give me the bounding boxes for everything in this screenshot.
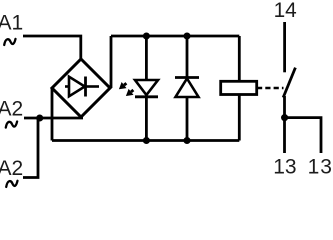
AC symbol under A1 bbox=[4, 39, 15, 45]
AC symbol under upper A2 bbox=[6, 122, 17, 128]
wire contact common lower bbox=[283, 96, 286, 153]
wire bridge left corner down to bottom rail bbox=[51, 88, 54, 141]
svg-text:13: 13 bbox=[308, 155, 333, 178]
wire bridge right corner riser bbox=[110, 36, 113, 88]
bridge internal diode cathode bar bbox=[84, 77, 87, 97]
wire LED branch upper bbox=[145, 36, 148, 80]
wire freewheel diode branch lower bbox=[186, 97, 189, 141]
bridge internal diode anode lead bbox=[65, 85, 69, 88]
wire top rail bbox=[111, 35, 239, 38]
bridge rectifier outline bbox=[52, 59, 110, 117]
junction dot bottom rail diode branch bbox=[183, 137, 190, 144]
AC symbol under lower A2 bbox=[6, 181, 17, 187]
LED cathode bar bbox=[135, 95, 158, 98]
junction dot top rail LED branch bbox=[143, 32, 150, 39]
junction dot top rail diode branch bbox=[183, 32, 190, 39]
wire freewheel diode branch upper bbox=[186, 36, 189, 78]
wire relay coil branch upper bbox=[238, 36, 241, 81]
LED triangle bbox=[135, 80, 158, 95]
terminal label 14 bbox=[274, 0, 297, 22]
junction dot contact node bbox=[281, 114, 288, 121]
svg-text:A2: A2 bbox=[0, 157, 23, 180]
wire A2 upper lead to bridge bottom bbox=[24, 117, 83, 120]
junction dot A2 node bbox=[36, 114, 43, 121]
svg-text:A1: A1 bbox=[0, 12, 23, 35]
terminal label A2 (upper) bbox=[0, 97, 23, 120]
bridge internal diode cathode lead bbox=[86, 85, 100, 88]
freewheel diode triangle bbox=[176, 79, 199, 98]
terminal label A1 bbox=[0, 12, 23, 35]
wire A1 lead to bridge top bbox=[23, 36, 81, 59]
wire LED branch lower bbox=[145, 97, 148, 141]
terminal label 13 (right) bbox=[308, 155, 333, 178]
bridge internal diode triangle bbox=[69, 77, 85, 97]
relay coil K1 bbox=[221, 81, 257, 94]
mechanical link dashed line bbox=[257, 87, 284, 90]
terminal label A2 (lower) bbox=[0, 157, 23, 180]
wire relay coil branch lower bbox=[238, 95, 241, 141]
wire A2 lower lead riser to A2 node bbox=[23, 118, 38, 178]
freewheel diode cathode bar bbox=[175, 76, 199, 79]
wire branch to second 13 terminal bbox=[285, 118, 321, 153]
svg-text:14: 14 bbox=[274, 0, 297, 22]
LED emission arrow lower bbox=[126, 89, 134, 96]
svg-text:13: 13 bbox=[273, 155, 296, 178]
wire contact 14 lead bbox=[283, 22, 286, 72]
terminal label 13 (left) bbox=[273, 155, 296, 178]
junction dot bottom rail LED branch bbox=[143, 137, 150, 144]
switch blade NO contact bbox=[283, 68, 295, 98]
wire bottom rail bbox=[52, 139, 239, 142]
svg-text:A2: A2 bbox=[0, 97, 23, 120]
LED emission arrow upper bbox=[119, 82, 127, 89]
